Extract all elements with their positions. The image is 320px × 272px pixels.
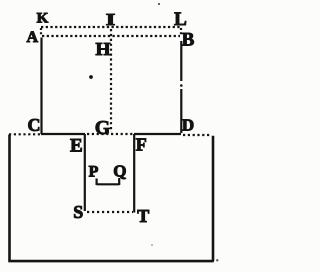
svg-text:K: K: [37, 10, 49, 26]
svg-text:B: B: [182, 29, 195, 50]
svg-text:I: I: [106, 10, 116, 29]
svg-text:D: D: [182, 115, 194, 134]
svg-text:E: E: [70, 135, 83, 156]
svg-text:H: H: [96, 39, 111, 59]
svg-text:A: A: [27, 29, 39, 46]
svg-text:T: T: [137, 206, 149, 226]
svg-text:P: P: [89, 164, 99, 181]
svg-text:G: G: [95, 117, 111, 139]
svg-text:Q: Q: [113, 161, 126, 180]
svg-text:L: L: [174, 9, 187, 30]
svg-text:F: F: [136, 134, 147, 154]
svg-text:C: C: [28, 115, 41, 135]
svg-text:S: S: [73, 202, 83, 222]
